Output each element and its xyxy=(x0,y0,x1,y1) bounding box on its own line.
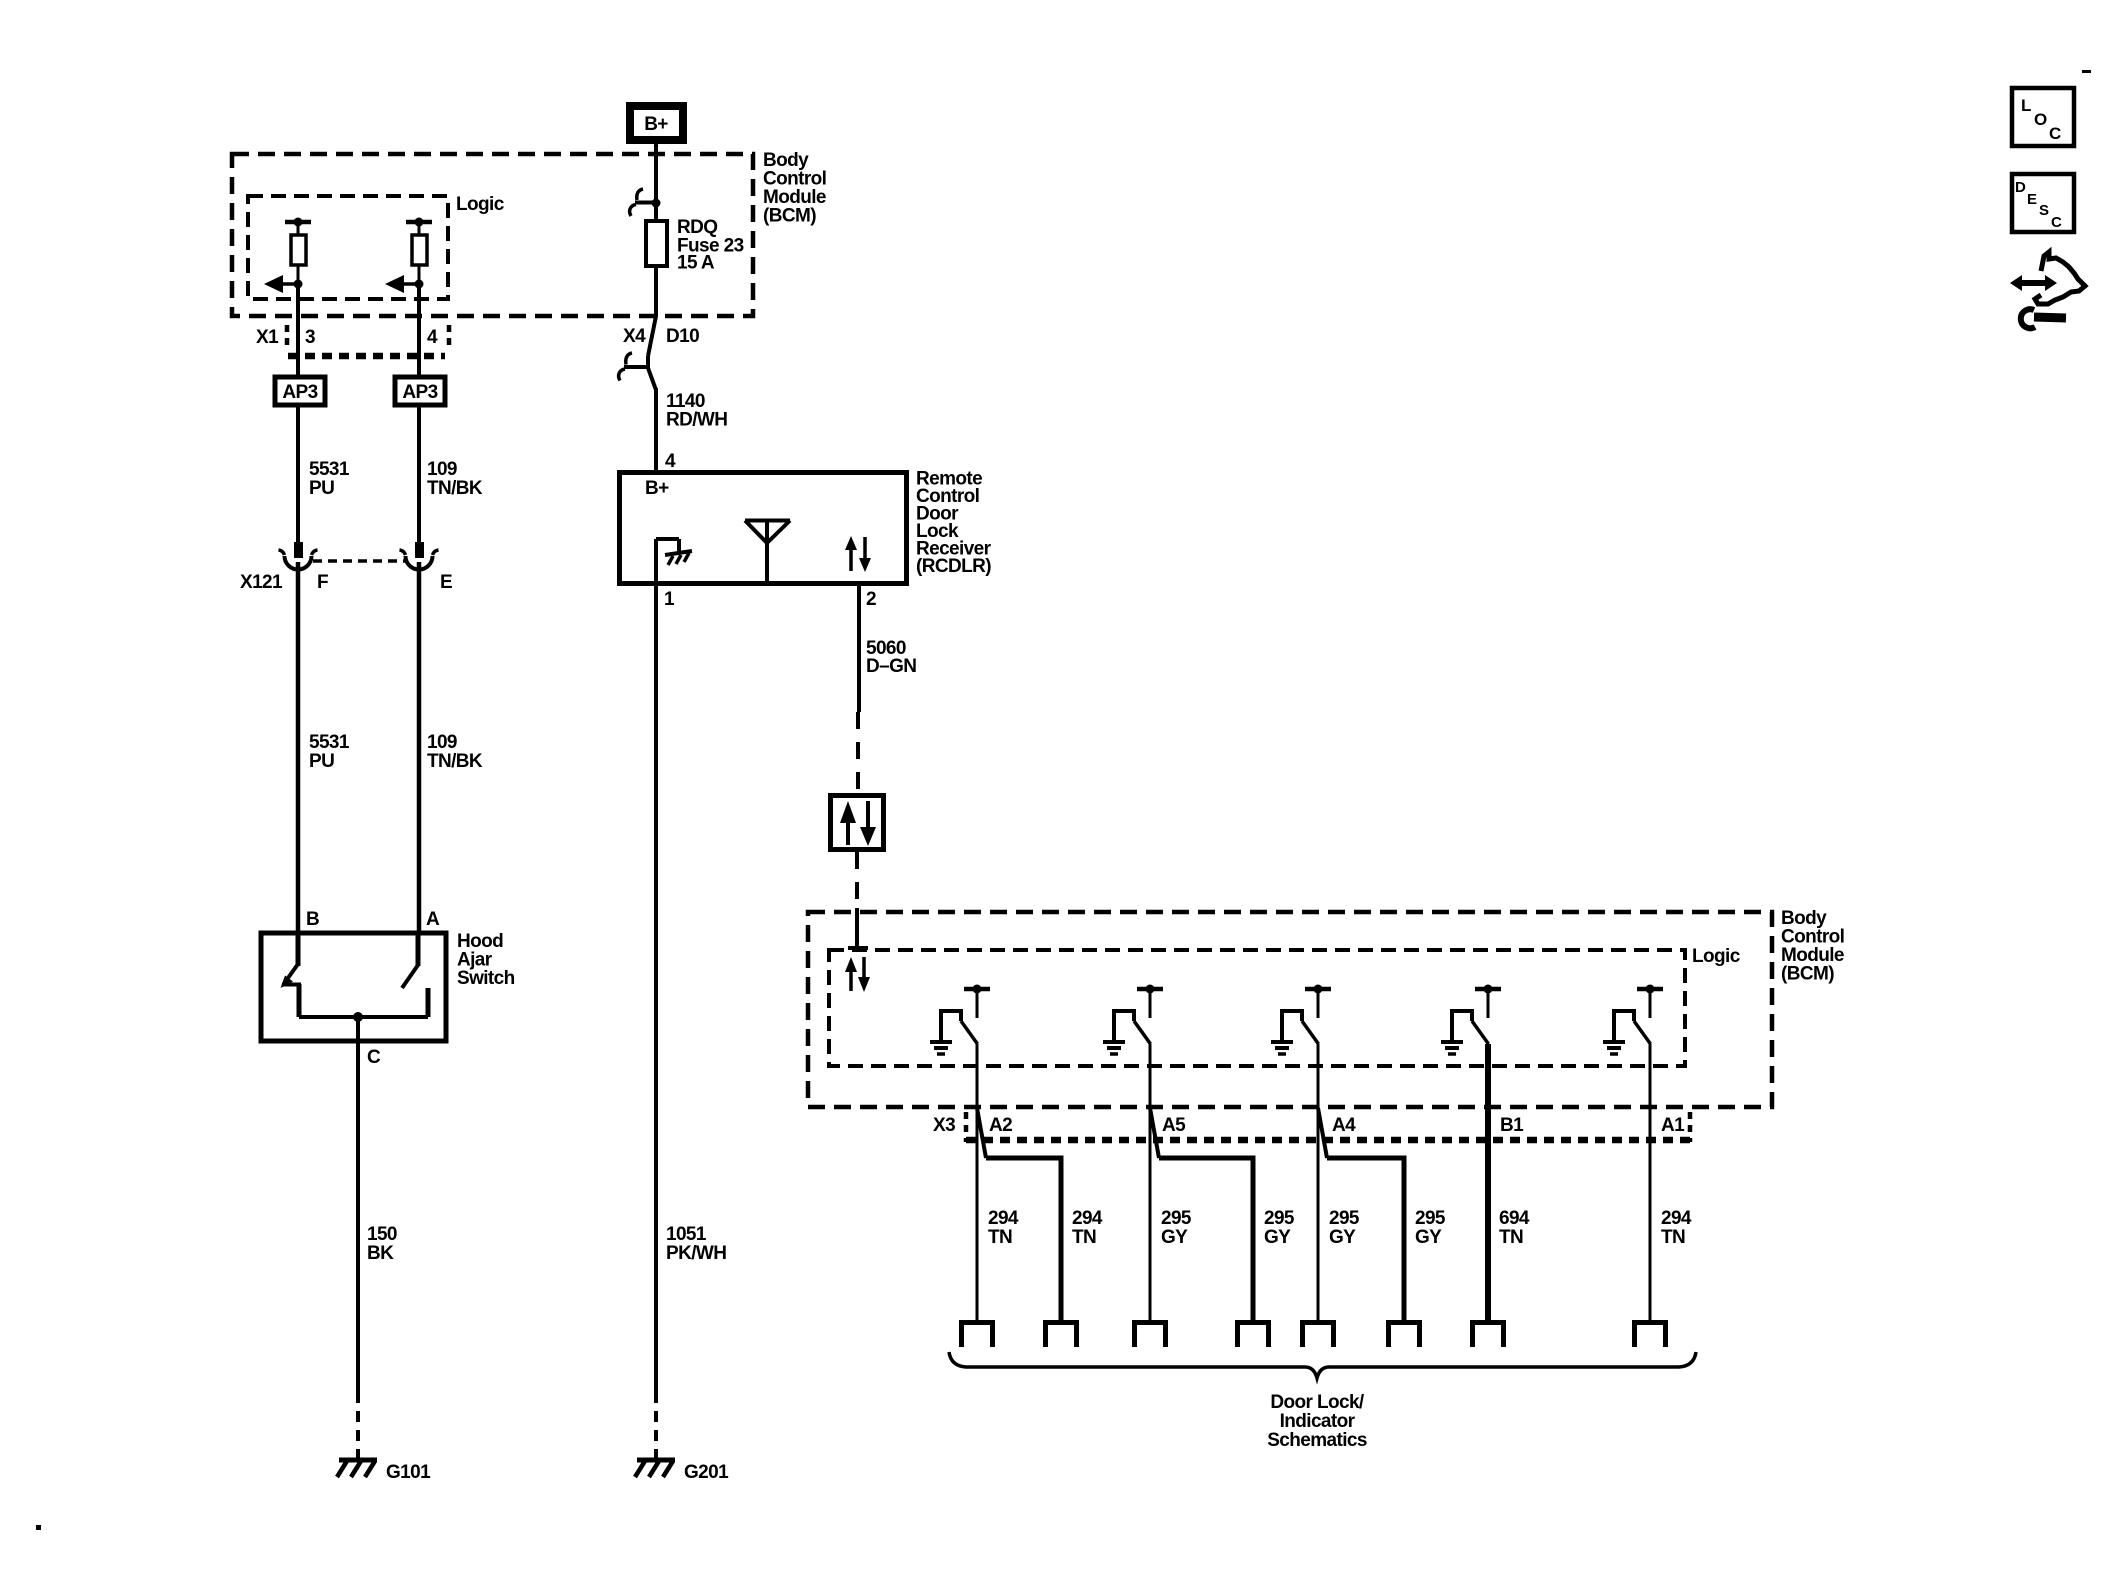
svg-text:O: O xyxy=(2034,110,2047,129)
svg-text:Door Lock/: Door Lock/ xyxy=(1270,1392,1365,1413)
module box RCDLR xyxy=(620,473,907,584)
svg-text:GY: GY xyxy=(1264,1227,1291,1248)
label 5060 D-GN xyxy=(866,638,916,677)
svg-text:F: F xyxy=(317,572,328,593)
connector X1 right edge xyxy=(447,325,452,350)
svg-text:294: 294 xyxy=(988,1208,1019,1229)
driver arrow 1 xyxy=(264,275,303,293)
svg-text:X4: X4 xyxy=(623,326,646,347)
icon DESC xyxy=(2012,174,2074,232)
svg-text:C: C xyxy=(2051,214,2062,231)
connector X1 band xyxy=(288,353,445,360)
connector X121 pin E xyxy=(400,542,439,570)
svg-text:A5: A5 xyxy=(1162,1115,1186,1136)
svg-text:4: 4 xyxy=(427,327,438,348)
svg-text:109: 109 xyxy=(427,732,457,753)
switch driver B1 xyxy=(1441,985,1501,1055)
svg-text:294: 294 xyxy=(1661,1208,1692,1229)
icon LOC xyxy=(2012,88,2074,146)
svg-text:TN/BK: TN/BK xyxy=(427,751,483,772)
svg-text:A1: A1 xyxy=(1661,1115,1685,1136)
wire 5060 dashed xyxy=(856,712,860,795)
terminal 5 xyxy=(1300,1320,1336,1347)
svg-text:4: 4 xyxy=(665,451,676,472)
label 5531 PU lower xyxy=(309,732,350,772)
module box BCM1 (Body Control Module) xyxy=(232,154,753,316)
label RCDLR xyxy=(916,469,992,578)
svg-text:(RCDLR): (RCDLR) xyxy=(916,556,991,577)
svg-text:295: 295 xyxy=(1415,1208,1446,1229)
svg-text:TN: TN xyxy=(1072,1227,1096,1248)
connector X1 left edge xyxy=(285,325,290,350)
svg-text:L: L xyxy=(2021,96,2031,115)
label 294 TN first xyxy=(988,1208,1019,1248)
svg-text:295: 295 xyxy=(1329,1208,1360,1229)
terminal 2 xyxy=(1043,1320,1079,1347)
svg-text:TN: TN xyxy=(1661,1227,1685,1248)
ground G201 xyxy=(635,1460,675,1477)
svg-text:Logic: Logic xyxy=(456,194,505,215)
svg-text:A2: A2 xyxy=(989,1115,1012,1136)
antenna symbol xyxy=(745,520,790,583)
wire into logic 2 xyxy=(848,908,868,948)
terminal 6 xyxy=(1386,1320,1422,1347)
svg-text:A4: A4 xyxy=(1332,1115,1356,1136)
X121 jumper dashed xyxy=(313,559,406,563)
svg-text:C: C xyxy=(367,1047,381,1068)
svg-text:Schematics: Schematics xyxy=(1267,1430,1367,1451)
svg-text:S: S xyxy=(2039,202,2049,219)
label 109 TN/BK xyxy=(427,459,483,499)
svg-text:295: 295 xyxy=(1264,1208,1295,1229)
label 694 TN xyxy=(1499,1208,1530,1248)
wire to G101 dashed xyxy=(356,1392,360,1458)
driver arrow 2 xyxy=(385,275,424,293)
switch driver A5 xyxy=(1103,985,1163,1055)
svg-text:X1: X1 xyxy=(256,327,279,348)
svg-text:294: 294 xyxy=(1072,1208,1103,1229)
wire 109 TN/BK upper xyxy=(417,405,421,543)
power symbol B+ xyxy=(630,106,683,140)
wire B+ feed xyxy=(654,156,658,200)
wire 694 TN B1 xyxy=(1485,1044,1491,1320)
wire 294 TN A2 branch xyxy=(977,1108,1061,1320)
svg-text:G201: G201 xyxy=(684,1462,729,1483)
svg-text:D10: D10 xyxy=(666,326,699,347)
wire fuse to BCM edge xyxy=(654,266,658,317)
inline connector X4 D10 xyxy=(619,316,656,390)
svg-text:2: 2 xyxy=(866,589,876,610)
wire 294 TN A1 xyxy=(1649,1044,1652,1320)
icon wrench xyxy=(2021,309,2066,328)
svg-text:PU: PU xyxy=(309,478,334,499)
serial data symbol box xyxy=(831,796,884,850)
hood switch pole B xyxy=(281,933,302,1017)
label 295 GY third xyxy=(1329,1208,1360,1248)
connector X121 pin F xyxy=(279,542,318,570)
terminal 1 xyxy=(959,1320,995,1347)
svg-text:AP3: AP3 xyxy=(402,382,437,403)
svg-text:Logic: Logic xyxy=(1692,946,1741,967)
svg-text:295: 295 xyxy=(1161,1208,1192,1229)
connector X3 left edge xyxy=(964,1112,969,1142)
wire B+ to BCM xyxy=(654,144,658,156)
splice AP3 left xyxy=(275,377,325,405)
wire 295 GY A5 branch xyxy=(1150,1108,1253,1320)
stray mark top right xyxy=(2082,70,2091,73)
label BCM1 xyxy=(763,150,826,227)
svg-text:Switch: Switch xyxy=(457,968,515,989)
svg-text:B+: B+ xyxy=(645,478,669,499)
wire 5531 PU upper xyxy=(296,405,300,543)
svg-text:D: D xyxy=(2015,179,2026,196)
label 1140 RD/WH xyxy=(666,391,727,431)
svg-text:5531: 5531 xyxy=(309,459,350,480)
svg-text:TN: TN xyxy=(1499,1227,1523,1248)
terminal 8 xyxy=(1632,1320,1668,1347)
svg-text:TN/BK: TN/BK xyxy=(427,478,483,499)
svg-text:694: 694 xyxy=(1499,1208,1530,1229)
hood switch pole A xyxy=(402,933,428,1017)
svg-text:GY: GY xyxy=(1161,1227,1188,1248)
svg-text:TN: TN xyxy=(988,1227,1012,1248)
svg-text:G101: G101 xyxy=(386,1462,431,1483)
wire 295 GY A5 straight xyxy=(1149,1044,1152,1320)
wire to G201 dashed xyxy=(654,1392,658,1458)
label 294 TN second xyxy=(1072,1208,1103,1248)
label 295 GY fourth xyxy=(1415,1208,1446,1248)
brace Door Lock xyxy=(949,1352,1696,1378)
terminal 7 xyxy=(1470,1320,1506,1347)
fuse RDO Fuse 23 15 A xyxy=(646,203,667,266)
switch driver A2 xyxy=(930,985,990,1055)
wire R1 to AP3 xyxy=(296,284,300,375)
svg-text:PK/WH: PK/WH xyxy=(666,1243,726,1264)
svg-text:B+: B+ xyxy=(644,114,668,135)
logic box 1 xyxy=(248,196,448,299)
label 150 BK xyxy=(367,1224,397,1264)
svg-text:E: E xyxy=(2027,191,2037,208)
wire 109 TN/BK lower xyxy=(417,562,422,933)
logic box 2 xyxy=(829,950,1685,1066)
updown arrows RCDLR xyxy=(845,536,871,572)
svg-text:Indicator: Indicator xyxy=(1280,1411,1356,1432)
svg-text:A: A xyxy=(426,909,440,930)
switch driver A4 xyxy=(1271,985,1331,1055)
svg-text:150: 150 xyxy=(367,1224,397,1245)
svg-text:E: E xyxy=(440,572,452,593)
module box BCM2 (Body Control Module) xyxy=(808,912,1772,1107)
wire 5531 PU lower xyxy=(296,562,301,933)
inline connector at fuse xyxy=(630,189,661,216)
svg-text:3: 3 xyxy=(305,327,315,348)
switch driver A1 xyxy=(1603,985,1663,1055)
svg-text:(BCM): (BCM) xyxy=(1781,964,1834,985)
label Hood Ajar Switch xyxy=(457,931,515,989)
svg-text:C: C xyxy=(2049,124,2061,143)
wire 1140 RD/WH xyxy=(654,388,658,470)
svg-text:109: 109 xyxy=(427,459,457,480)
label 5531 PU xyxy=(309,459,350,499)
svg-text:X3: X3 xyxy=(933,1115,955,1136)
svg-text:GY: GY xyxy=(1329,1227,1356,1248)
label 294 TN last xyxy=(1661,1208,1692,1248)
svg-text:(BCM): (BCM) xyxy=(763,206,816,227)
connector X3 band xyxy=(966,1137,1690,1144)
svg-text:B: B xyxy=(306,909,319,930)
internal ground RCDLR xyxy=(656,539,692,584)
label RDO Fuse 23 15 A xyxy=(677,217,744,274)
svg-text:D–GN: D–GN xyxy=(866,656,916,677)
svg-text:5531: 5531 xyxy=(309,732,350,753)
svg-text:RD/WH: RD/WH xyxy=(666,410,727,431)
terminal 3 xyxy=(1132,1320,1168,1347)
ground G101 xyxy=(337,1460,377,1477)
label Door Lock Indicator Schematics xyxy=(1267,1392,1367,1451)
svg-text:1: 1 xyxy=(664,589,675,610)
wire 1051 PK/WH xyxy=(654,586,658,1392)
wire 294 TN A2 straight xyxy=(976,1044,979,1320)
svg-text:PU: PU xyxy=(309,751,334,772)
wire dashed into BCM2 xyxy=(855,852,859,908)
label 1051 PK/WH xyxy=(666,1224,726,1264)
connector X3 right edge xyxy=(1688,1112,1693,1142)
label BCM2 xyxy=(1781,908,1844,985)
resistor R2 xyxy=(406,218,432,285)
svg-text:15 A: 15 A xyxy=(677,253,715,274)
label 295 GY first xyxy=(1161,1208,1192,1248)
wire 150 BK xyxy=(356,1017,360,1392)
resistor R1 xyxy=(285,218,311,285)
terminal 4 xyxy=(1235,1320,1271,1347)
svg-text:B1: B1 xyxy=(1500,1115,1524,1136)
label 295 GY second xyxy=(1264,1208,1295,1248)
svg-text:BK: BK xyxy=(367,1243,394,1264)
splice AP3 right xyxy=(395,377,445,405)
wire R2 to AP3 xyxy=(417,284,421,375)
hood ajar switch box xyxy=(261,933,446,1041)
svg-text:1051: 1051 xyxy=(666,1224,707,1245)
updown arrows logic xyxy=(845,957,870,992)
wire 295 GY A4 branch xyxy=(1318,1108,1404,1320)
svg-text:X121: X121 xyxy=(240,572,283,593)
icon nav arrow xyxy=(2010,252,2085,304)
wire 295 GY A4 straight xyxy=(1317,1044,1320,1320)
hood switch common rail xyxy=(299,1012,428,1022)
stray mark bottom left xyxy=(36,1525,41,1530)
label 109 TN/BK lower xyxy=(427,732,483,772)
svg-text:AP3: AP3 xyxy=(282,382,317,403)
svg-text:GY: GY xyxy=(1415,1227,1442,1248)
wire 5060 D-GN solid xyxy=(857,586,861,712)
